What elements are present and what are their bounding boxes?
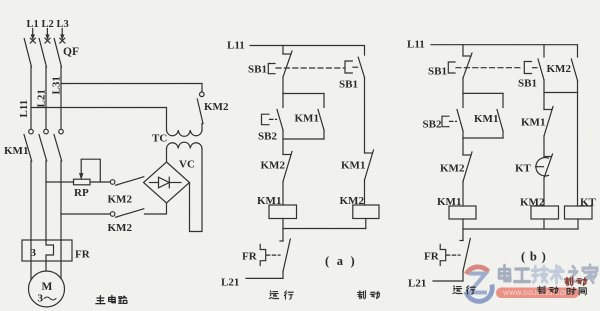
diode inside VC — [150, 177, 182, 188]
resistor RP box — [74, 179, 91, 185]
coil KT (b) — [565, 206, 593, 219]
wire to KM2 coil (a) — [364, 180, 366, 205]
transformer TC primary — [167, 130, 203, 136]
contact KM1 NO self-hold (b) — [497, 93, 503, 138]
watermark red small text — [565, 277, 587, 285]
supply arrow L3 — [61, 29, 64, 40]
coil KM1 (a) — [269, 205, 297, 219]
wire TC secondary right around bridge — [190, 149, 203, 232]
wire left rail top (a) — [282, 46, 284, 55]
pushbutton SB2 NO (a) — [262, 94, 284, 131]
contactor KM1 main pole1 — [24, 129, 33, 161]
contactor KM1 main pole3 — [54, 129, 63, 161]
wire to L21 (a) — [246, 277, 283, 279]
supply arrow L2 — [46, 29, 49, 40]
contact KM2 NC interlock (a) — [283, 152, 292, 182]
label 时间 (b) — [567, 288, 586, 295]
RP slider loop with arrow — [79, 159, 100, 182]
wire to KT contact (b) — [543, 136, 545, 157]
contact KM2 middle (DC+) — [110, 177, 144, 186]
transformer TC secondary — [167, 142, 203, 148]
wire mid rail top (b) — [543, 45, 545, 57]
pushbutton SB1 NC (a) — [268, 51, 357, 77]
node parallel bottom (a) — [283, 138, 324, 140]
contactor KM1 main pole2 — [39, 129, 48, 161]
breaker QF contact x pole2 — [39, 38, 50, 67]
FR heater element jog — [46, 240, 54, 261]
wire left rail (b) — [462, 78, 464, 93]
contact FR NC (a) — [280, 239, 290, 278]
wire to KM1 coil (a) — [282, 182, 284, 206]
wire mid rail to KM1 NC (b) — [543, 93, 545, 110]
wire pole2 lower — [45, 161, 47, 240]
wire phase1 vertical — [30, 67, 32, 129]
wire to L21 (b) — [433, 280, 463, 282]
pushbutton SB1 NO (a right) — [345, 57, 365, 77]
FR actuator (b) — [440, 244, 460, 265]
wire coil to bus (a) — [282, 219, 284, 229]
wire KM2 coil to bus (b) — [543, 219, 545, 229]
breaker QF contact x pole1 — [24, 38, 35, 67]
contact KM2 NO self-hold (b) — [571, 59, 577, 81]
wire KT coil to bus (b) — [577, 219, 579, 229]
wire rail to parallel block (a) — [282, 77, 284, 94]
watermark text 电工技术之家 — [499, 265, 597, 283]
coil KM2 (b) — [531, 206, 559, 219]
pushbutton SB2 NO (b) — [442, 93, 463, 138]
node bottom bus (b) — [463, 228, 578, 230]
wire right rail (a) — [364, 78, 366, 154]
label 制动 (b) — [538, 286, 558, 294]
wire L21 branch to RP — [46, 181, 74, 183]
node bottom bus (a) — [283, 228, 366, 230]
FR actuator (a) — [260, 244, 280, 265]
wires FR to motor — [31, 261, 61, 280]
wire RP to KM2 — [90, 181, 110, 183]
wire coil to bus (b) — [462, 219, 464, 229]
node merge SB1/KM2 (b) — [544, 80, 578, 93]
wire to KM2 coil (b) — [543, 178, 545, 206]
node parallel top (b) — [463, 92, 503, 94]
motor M circle — [29, 271, 65, 307]
wire bus to FR (b) — [462, 229, 464, 241]
wire phase3 vertical — [60, 67, 62, 129]
thermal relay FR box — [22, 240, 72, 261]
wire rail (a) — [282, 130, 284, 155]
wire pole3 lower — [60, 161, 62, 240]
node parallel bottom (b) — [463, 137, 503, 139]
node L11 top wire (a) — [250, 46, 365, 56]
contact KT NC delayed (b) — [536, 154, 553, 178]
watermark logo swirl — [466, 267, 492, 302]
node parallel top (a) — [283, 93, 324, 95]
contact KM2 NC interlock (b) — [463, 152, 472, 182]
contact KM1 NC interlock (a) — [365, 150, 374, 180]
wire left rail top (b) — [462, 45, 464, 56]
breaker QF contact x pole3 — [54, 38, 65, 67]
supply arrow L1 — [31, 29, 34, 40]
wire right rail down to KT coil (b) — [577, 81, 579, 207]
wire to KM1 coil (b) — [462, 182, 464, 207]
wire KM2 lower to bridge bottom — [145, 203, 167, 214]
wire rail (b) — [462, 138, 464, 155]
wire L31 branch to KM2 top contact — [61, 84, 202, 92]
wire bus to FR (a) — [282, 229, 284, 242]
label 制动 (a) — [358, 291, 380, 299]
node L11 top wire (b) — [431, 45, 578, 57]
contact FR NC (b) — [460, 239, 470, 282]
watermark red URL band — [496, 288, 579, 299]
coil KM2 (a) — [353, 205, 379, 219]
label 主电路 — [96, 295, 127, 303]
wire pole1 lower — [30, 161, 32, 240]
contact KM2 top (to TC) — [197, 92, 204, 130]
wire L11 branch to TC primary — [31, 108, 167, 131]
wire TC secondary left to bridge top — [166, 149, 168, 163]
wire coil to bus right (a) — [365, 219, 367, 229]
pushbutton SB1 NC (b) — [448, 53, 537, 78]
rectifier VC bridge diamond — [144, 162, 190, 203]
contact KM1 NO self-hold (a) — [318, 94, 324, 140]
contact KM1 NC interlock (b) — [544, 107, 553, 137]
wire L31 branch lower to KM2 — [61, 213, 110, 215]
wire phase2 vertical — [45, 67, 47, 129]
pushbutton SB1 NO (b) — [524, 59, 544, 80]
label 运行 (b) — [453, 286, 475, 294]
wires through FR pole1 pole3 — [31, 240, 61, 261]
contact KM2 lower (DC-) — [110, 209, 144, 218]
label 运行 (a) — [269, 291, 293, 299]
coil KM1 (b) — [449, 206, 476, 219]
